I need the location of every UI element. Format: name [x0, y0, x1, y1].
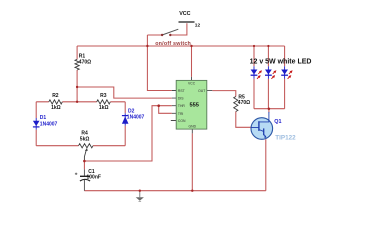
- svg-text:5kΩ: 5kΩ: [80, 137, 90, 143]
- svg-text:100nF: 100nF: [87, 174, 101, 180]
- svg-text:1kΩ: 1kΩ: [99, 105, 109, 111]
- svg-text:1N4007: 1N4007: [40, 121, 58, 127]
- svg-text:D1: D1: [40, 115, 47, 121]
- svg-text:THR: THR: [178, 104, 186, 108]
- svg-text:TRI: TRI: [178, 112, 184, 116]
- svg-text:1kΩ: 1kΩ: [51, 105, 61, 111]
- svg-text:R2: R2: [52, 93, 59, 99]
- svg-text:VCC: VCC: [188, 82, 196, 86]
- svg-text:470Ω: 470Ω: [238, 100, 250, 106]
- svg-text:555: 555: [189, 103, 199, 109]
- svg-text:GND: GND: [189, 125, 197, 129]
- svg-text:CON: CON: [178, 119, 186, 123]
- svg-text:VCC: VCC: [179, 11, 190, 17]
- svg-text:TIP122: TIP122: [275, 135, 296, 142]
- svg-text:1N4007: 1N4007: [127, 115, 145, 121]
- svg-text:12: 12: [195, 22, 201, 28]
- svg-text:D2: D2: [128, 109, 135, 115]
- svg-text:RST: RST: [178, 89, 185, 93]
- svg-text:Q1: Q1: [274, 119, 281, 125]
- svg-text:470Ω: 470Ω: [79, 59, 91, 65]
- svg-text:12 v 5W white LED: 12 v 5W white LED: [250, 58, 312, 65]
- svg-text:OUT: OUT: [198, 89, 205, 93]
- svg-text:R3: R3: [100, 93, 107, 99]
- svg-text:DIS: DIS: [178, 97, 184, 101]
- svg-text:on/off switch: on/off switch: [155, 41, 191, 47]
